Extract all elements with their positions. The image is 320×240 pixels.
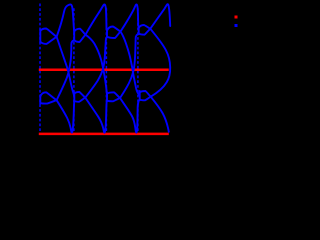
- braid spectrum figure: [0, 0, 250, 150]
- strand alpha3: [121, 32, 140, 96]
- strand V3 bounce: [120, 98, 140, 133]
- upper loop 4 top arc: [139, 25, 151, 29]
- lower loop 1 top arc: [40, 92, 56, 100]
- upper loop 4 bottom arc: [139, 29, 151, 35]
- strand alpha2: [86, 35, 108, 96]
- strand peak P4: [150, 4, 170, 28]
- lower loop 4 left edge: [139, 91, 141, 100]
- strand beta1: [57, 41, 75, 101]
- lower loop 4 top arc: [140, 91, 151, 97]
- lower loop 1 bottom arc: [40, 100, 56, 103]
- upper loop 4 left edge: [138, 27, 140, 34]
- upper loop 3 bottom arc: [107, 32, 121, 39]
- strand alpha1: [57, 37, 75, 96]
- lower loop 2 bottom arc: [74, 98, 85, 102]
- upper loop 2 left edge: [73, 30, 75, 41]
- upper loop 1 top arc: [40, 29, 56, 37]
- lower loop 1 left edge: [39, 95, 41, 104]
- dashed line L3: [105, 8, 107, 132]
- dashed line L2: [73, 8, 75, 132]
- strand V4 diagonal to red2 end: [151, 97, 169, 132]
- upper loop 3 top arc: [107, 27, 121, 32]
- strand boundary arc cell4: [150, 29, 170, 97]
- strand peak P2: [86, 4, 107, 34]
- lower loop 3 top arc: [107, 92, 120, 98]
- legend red marker: [235, 16, 238, 19]
- upper loop 1 bottom arc: [40, 37, 56, 44]
- lower loop 2 top arc: [74, 92, 85, 98]
- dashed line L1: [39, 4, 41, 133]
- lower loop 3 left edge: [106, 92, 108, 101]
- strand peak P1: [57, 4, 75, 36]
- strand beta3: [120, 34, 139, 98]
- dashed line L4: [137, 8, 139, 132]
- upper loop 3 left edge: [106, 29, 108, 37]
- upper loop 2 bottom arc: [74, 35, 85, 42]
- legend blue marker: [235, 24, 238, 27]
- lower loop 3 bottom arc: [107, 98, 120, 101]
- strand beta2: [85, 37, 107, 97]
- red line 1: [39, 69, 169, 72]
- strand peak P3: [121, 4, 139, 31]
- red line 2: [39, 133, 169, 136]
- lower loop 4 bottom arc: [140, 97, 151, 101]
- lower loop 2 left edge: [73, 92, 75, 101]
- strand V2 bounce: [85, 98, 107, 133]
- upper loop 1 left edge: [39, 30, 41, 43]
- strand V1 bounce: [57, 100, 75, 132]
- upper loop 2 top arc: [74, 29, 85, 35]
